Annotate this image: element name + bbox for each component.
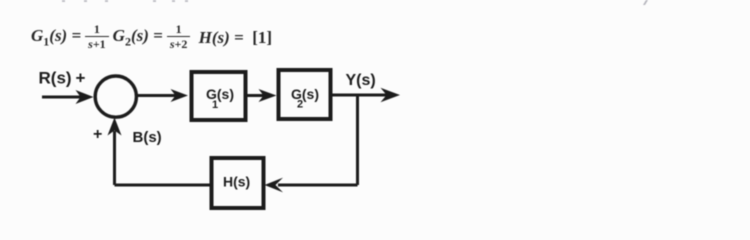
svg-text:H(s): H(s) <box>223 174 250 190</box>
svg-text:1: 1 <box>212 99 218 111</box>
svg-text:G(s): G(s) <box>291 86 319 102</box>
svg-text:2: 2 <box>297 99 303 111</box>
cropped text remnants at top edge <box>62 0 648 5</box>
block G2 <box>279 70 331 119</box>
svg-text:R(s): R(s) <box>39 69 72 88</box>
wire: circle to G1 <box>137 94 178 97</box>
wire: feedback left segment from H <box>115 184 212 187</box>
block G1 <box>192 72 246 120</box>
svg-text:Y(s): Y(s) <box>346 72 376 89</box>
svg-text:B(s): B(s) <box>133 129 162 146</box>
wire: R(s) input arrow <box>42 96 84 99</box>
block H <box>212 158 264 208</box>
svg-text:+: + <box>76 69 86 88</box>
wire: feedback up into circle <box>113 131 116 185</box>
summing junction circle <box>95 76 136 117</box>
svg-text:+: + <box>93 126 102 143</box>
svg-text:G(s): G(s) <box>206 86 234 102</box>
wire: output line Y(s) <box>331 94 387 97</box>
wire: G1 to G2 <box>245 94 271 97</box>
equation line <box>31 24 272 51</box>
node: takeoff point / wire down <box>356 95 359 185</box>
wire: feedback right segment into H <box>278 184 358 187</box>
